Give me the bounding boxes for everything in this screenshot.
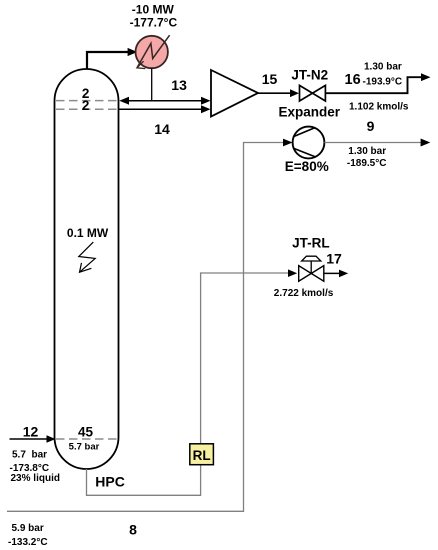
wire stream 14 — [119, 108, 209, 110]
wire stream 9 — [324, 142, 424, 144]
wire stream 12 — [10, 438, 51, 440]
wire cooler to line 13 — [151, 68, 153, 100]
svg-text:RL: RL — [193, 448, 211, 463]
svg-text:15: 15 — [262, 71, 278, 87]
svg-text:2: 2 — [82, 98, 90, 113]
svg-text:-173.8°C: -173.8°C — [10, 463, 50, 474]
valve JT-RL — [299, 266, 324, 282]
wire stream 17 — [324, 272, 344, 274]
cooler circle -10 MW — [136, 36, 168, 68]
column HPC vessel — [55, 69, 119, 469]
valve JT-RL actuator — [302, 256, 321, 261]
svg-text:JT-N2: JT-N2 — [291, 67, 328, 82]
svg-text:45: 45 — [78, 424, 94, 439]
valve JT-N2 — [300, 85, 326, 101]
svg-text:1.102 kmol/s: 1.102 kmol/s — [349, 102, 409, 113]
svg-text:-189.5°C: -189.5°C — [347, 158, 387, 169]
svg-text:Expander: Expander — [279, 104, 341, 119]
wire column top to cooler — [87, 52, 128, 69]
svg-text:5.7 bar: 5.7 bar — [12, 449, 47, 460]
svg-text:16: 16 — [345, 72, 361, 88]
svg-text:12: 12 — [23, 423, 39, 439]
wire stream 16 — [325, 77, 425, 93]
tray 2 dashed line top — [56, 100, 118, 102]
energy stream zigzag (cooler) — [137, 35, 170, 68]
expander chords — [294, 128, 316, 157]
wire stream 15 — [258, 92, 295, 94]
svg-text:23% liquid: 23% liquid — [11, 473, 60, 484]
wire stream 8 — [7, 143, 288, 512]
svg-text:5.7 bar: 5.7 bar — [69, 442, 100, 453]
tray 2 dashed line second — [56, 108, 118, 110]
energy stream lightning 0.1 MW — [79, 242, 95, 272]
tray 45 dashed line — [56, 438, 118, 440]
svg-text:5.9 bar: 5.9 bar — [12, 523, 44, 534]
expander circle — [293, 127, 325, 159]
mixer triangle — [211, 70, 258, 117]
svg-text:9: 9 — [367, 118, 375, 134]
wire RL loop (column bottom to JT-RL) — [87, 273, 293, 495]
svg-text:2.722 kmol/s: 2.722 kmol/s — [274, 288, 334, 299]
svg-text:0.1 MW: 0.1 MW — [67, 226, 109, 240]
svg-text:-193.9°C: -193.9°C — [363, 77, 403, 88]
svg-text:-177.7°C: -177.7°C — [130, 15, 178, 29]
svg-text:1.30 bar: 1.30 bar — [348, 146, 386, 157]
svg-text:1.30 bar: 1.30 bar — [364, 61, 402, 72]
svg-text:17: 17 — [326, 251, 342, 267]
svg-text:HPC: HPC — [95, 473, 125, 489]
svg-text:-133.2°C: -133.2°C — [8, 537, 48, 548]
svg-text:8: 8 — [129, 522, 137, 538]
svg-text:JT-RL: JT-RL — [292, 236, 330, 251]
svg-text:E=80%: E=80% — [285, 159, 329, 174]
RL flag box — [190, 444, 214, 465]
svg-text:13: 13 — [171, 77, 187, 93]
valve JT-RL stem — [310, 261, 312, 273]
wire stream 13 / reflux — [121, 100, 209, 102]
svg-text:14: 14 — [154, 121, 170, 137]
